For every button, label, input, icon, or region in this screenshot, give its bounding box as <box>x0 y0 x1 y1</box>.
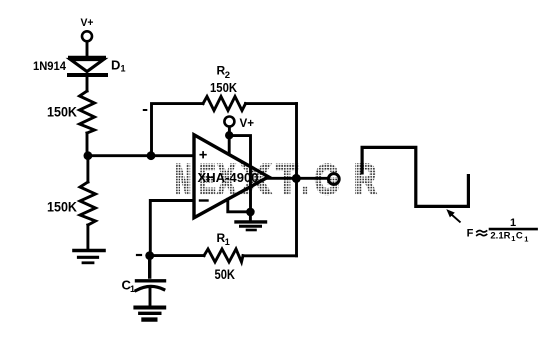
wire node A to resistor lower <box>86 156 89 182</box>
node F junction dot <box>145 251 154 260</box>
svg-text:V+: V+ <box>81 17 94 29</box>
svg-text:1: 1 <box>511 234 515 243</box>
formula fraction bar <box>490 228 537 231</box>
op-amp U1 triangle <box>194 135 269 218</box>
svg-text:R: R <box>354 155 377 202</box>
svg-text:V+: V+ <box>240 118 255 130</box>
op-amp + input mark <box>200 152 206 158</box>
svg-text:N: N <box>175 155 191 202</box>
resistor 150K lower <box>80 182 96 225</box>
node C junction dot <box>225 131 233 139</box>
svg-text:1: 1 <box>524 234 528 243</box>
node E output junction dot <box>292 174 301 183</box>
wire node B up to R2 <box>152 104 204 154</box>
approx equals sign <box>477 231 487 236</box>
wire C1 to ground <box>149 289 152 305</box>
diode D1 cathode bar <box>69 73 106 77</box>
wire node C to op-amp top slope <box>228 135 231 154</box>
speck near R2 corner <box>144 109 147 111</box>
wire right rail bottom to R1 <box>243 254 297 257</box>
speck near C1 node <box>137 254 141 256</box>
diode D1 anode bar <box>70 56 104 60</box>
watermark NEXT.GR <box>175 155 377 202</box>
svg-text:150K: 150K <box>210 80 238 95</box>
ground under lower 150K <box>74 249 104 253</box>
ground under C1 <box>135 306 164 310</box>
node D junction dot <box>246 208 255 217</box>
node V+ op-amp terminal <box>224 117 234 127</box>
wire power bracket <box>229 136 250 209</box>
arrow to waveform <box>452 215 460 222</box>
wire R2 to right rail <box>246 102 297 105</box>
svg-text:1: 1 <box>121 64 126 74</box>
svg-text:1: 1 <box>130 284 135 294</box>
wire V+ terminal to dot <box>228 127 231 132</box>
svg-text:C: C <box>516 231 523 242</box>
node output terminal circle <box>328 174 339 185</box>
wire op-amp - input to C1 node <box>150 201 194 254</box>
svg-text:1: 1 <box>510 217 516 229</box>
node V+ supply terminal (left) <box>82 31 92 41</box>
svg-text:1N914: 1N914 <box>33 59 66 73</box>
svg-text:1: 1 <box>225 237 230 247</box>
arrowhead <box>446 209 455 217</box>
diode D1 triangle <box>71 60 104 72</box>
waveform square wave <box>362 147 468 206</box>
svg-text:150K: 150K <box>47 200 77 215</box>
capacitor C1 curved plate <box>136 286 164 290</box>
svg-text:50K: 50K <box>215 267 236 282</box>
svg-text:2: 2 <box>225 70 230 81</box>
svg-text:150K: 150K <box>47 105 77 120</box>
speck below right rail corner <box>259 254 265 256</box>
svg-text:D: D <box>111 58 120 73</box>
resistor 150K upper <box>80 91 95 133</box>
wire resistor to node A <box>86 133 89 152</box>
op-amp - input mark <box>200 199 208 201</box>
wire resistor lower to ground <box>86 225 89 249</box>
wire op-amp output <box>266 177 327 180</box>
wire V+ terminal to diode <box>86 42 89 56</box>
wire right rail vertical <box>295 104 298 256</box>
wire diode to resistor <box>86 77 89 91</box>
node B junction dot <box>147 151 156 160</box>
resistor R1 <box>204 249 243 262</box>
wire node D to ground <box>249 212 252 220</box>
node A junction dot <box>84 151 93 160</box>
wire node A to op-amp + input <box>88 154 194 157</box>
resistor R2 <box>203 97 246 111</box>
svg-text:2.1R: 2.1R <box>490 231 510 242</box>
svg-text:F: F <box>467 228 474 240</box>
wire node F to R1 <box>150 254 204 257</box>
wire op-amp V- pin stub <box>228 199 251 212</box>
ground under op-amp <box>236 220 266 223</box>
svg-text:XHA-4900: XHA-4900 <box>198 171 259 185</box>
capacitor C1 top plate <box>137 256 165 281</box>
